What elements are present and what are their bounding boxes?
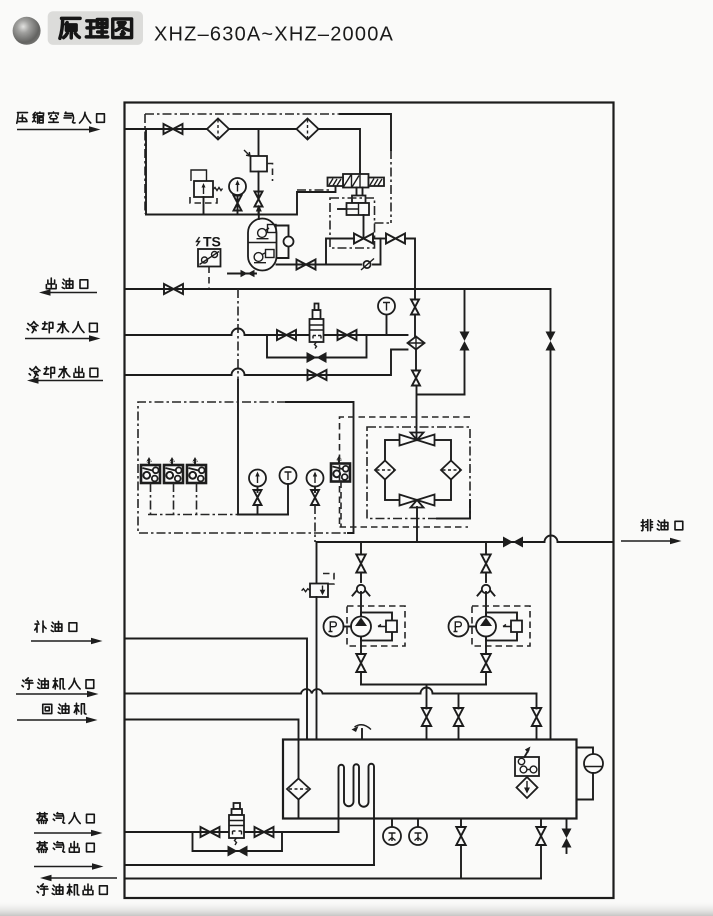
wire: solenoid to actuator — [357, 188, 363, 196]
wire: pump discharge / drain manifold — [317, 536, 614, 542]
tank drain diamond — [517, 777, 538, 798]
wire: actuator stem down — [363, 215, 365, 239]
wire: purifier outlet line — [125, 878, 542, 880]
wire: return line — [125, 720, 299, 780]
filter element left — [375, 461, 395, 480]
wire: cooling water outlet — [125, 350, 408, 376]
arrow fill port — [31, 638, 103, 645]
vessel drain valve — [228, 270, 256, 277]
arrow drain out — [621, 538, 682, 545]
valve V7 bypass closed — [307, 352, 327, 363]
wire: CV1 to V2 — [373, 238, 386, 240]
pressure switch PS2 — [164, 457, 183, 515]
heater coil — [339, 764, 375, 865]
arrow purifier in — [16, 691, 99, 698]
valve V1 air inlet — [164, 124, 183, 134]
arrow air in — [17, 126, 101, 133]
arrow oil out — [39, 289, 97, 296]
relief valve RV1 — [302, 542, 334, 740]
solenoid valve SV1 — [328, 174, 385, 188]
vessel top stub with arrow — [256, 205, 262, 220]
check valve CK1 — [361, 259, 374, 271]
wire: oil drop to cooler — [411, 289, 419, 337]
wire: return riser right — [550, 289, 552, 740]
label 冷却水入口 — [27, 322, 97, 333]
control valve CV1 — [354, 234, 373, 244]
wire: check valve line — [277, 239, 381, 265]
pressure gauge G2 — [249, 470, 266, 515]
accumulator vessel — [248, 219, 277, 271]
valve V9 bypass closed vertical — [460, 332, 470, 351]
label 蒸汽出口 — [37, 842, 94, 853]
wire: compressed air line — [125, 129, 361, 174]
valve V12 steam in — [201, 827, 220, 837]
duplex filter top 3-way valve — [400, 433, 435, 446]
tank drain riser 1 — [456, 819, 465, 879]
temperature gauge G3 — [280, 467, 297, 515]
duplex filter bottom 3-way valve — [400, 495, 435, 508]
tank drain closed valve — [562, 819, 572, 854]
wire: steam bypass — [193, 832, 283, 851]
valve V6 water in 2 — [338, 330, 357, 340]
trap 1 — [383, 819, 401, 846]
cooler cross — [408, 337, 425, 350]
label 补油口 — [35, 621, 77, 632]
actuator cylinder — [338, 203, 369, 215]
actuator dash-dot enclosure — [330, 198, 375, 248]
level gauge column — [577, 748, 604, 800]
arrow water in — [25, 335, 101, 342]
wire: air branch down to treatment — [145, 129, 147, 215]
pressure switch PS3 — [187, 457, 206, 515]
filter element right — [441, 461, 461, 480]
wire: purifier inlet line — [125, 688, 537, 694]
valve V3 vessel outlet — [297, 260, 316, 270]
wire: purifier drop 2 — [532, 694, 541, 740]
valve V2 — [386, 234, 405, 244]
outer border of diagram — [125, 103, 614, 899]
wire: main oil outlet manifold — [125, 288, 551, 290]
svg-text:TS: TS — [203, 234, 221, 250]
wire: purifier drop 1 — [454, 694, 463, 740]
pressure reducing valve PRV — [190, 170, 223, 215]
label 出油口 — [46, 278, 87, 289]
wire: treatment bottom line — [146, 187, 336, 215]
label 回油机 — [43, 703, 86, 714]
valve V13 steam in 2 — [255, 827, 274, 837]
header ball icon — [13, 17, 41, 45]
wire: filter outlet down — [416, 507, 418, 542]
T gauge on oil line — [378, 298, 395, 336]
oil tank — [283, 740, 577, 819]
air filter F1 — [207, 119, 229, 140]
duplex filter dash-dot box — [367, 427, 470, 519]
wire: oil fill line — [125, 639, 308, 740]
air regulator R1 — [244, 129, 273, 215]
tank drain riser 2 — [536, 819, 545, 879]
pump group 1 — [324, 542, 406, 685]
level switch in tank — [515, 747, 539, 777]
air system boundary dash-dot box — [145, 114, 391, 223]
svg-text:XHZ–630A~XHZ–2000A: XHZ–630A~XHZ–2000A — [154, 24, 394, 46]
arrow return — [17, 717, 98, 724]
valve V10 return closed vertical — [546, 332, 556, 351]
label 蒸汽入口 — [37, 813, 94, 824]
wire: steam inlet line — [125, 831, 339, 833]
vessel side loop with circle — [277, 226, 294, 259]
pilot box — [352, 196, 366, 204]
TS temperature switch — [197, 234, 221, 290]
pressure gauge G1 — [229, 178, 246, 215]
breather — [352, 725, 372, 740]
header chip 原理图 — [48, 11, 143, 45]
pressure switch PS4 — [331, 456, 350, 528]
valve V14 steam bypass closed — [228, 846, 248, 857]
duplex filter loop — [385, 440, 451, 500]
wire: suction drop to tank — [422, 685, 431, 740]
label 压缩空气入口 — [17, 112, 105, 123]
label 净油机出口 — [37, 884, 107, 895]
valve V5 water in — [277, 330, 296, 340]
skid dashed boundary — [340, 417, 471, 527]
valve V8 water out — [308, 370, 327, 380]
instrument dash-dot box — [138, 402, 354, 533]
instrument sensing line — [237, 289, 239, 515]
wire: steam outlet line — [125, 864, 375, 866]
arrow purifier out — [40, 875, 117, 882]
instrument manifold — [148, 514, 288, 516]
label 冷却水出口 — [29, 367, 98, 378]
wire: water bypass — [267, 335, 367, 358]
wire: cooler to filter — [412, 350, 420, 441]
temperature control valve TCV — [310, 304, 324, 349]
wire: cooler bypass riser — [464, 289, 466, 395]
pressure gauge G4 — [307, 470, 324, 543]
wire: U link to bypass riser — [417, 394, 465, 396]
pressure switch PS1 — [141, 457, 160, 515]
arrow steam out — [34, 863, 104, 870]
wire: cooling water inlet line — [125, 329, 408, 336]
wire: pump suction manifold — [361, 684, 486, 686]
pump group 2 — [449, 542, 531, 685]
label 排油口 right — [641, 520, 683, 531]
wire: valve CV1 left leg — [326, 239, 354, 265]
trap 2 — [409, 819, 427, 846]
arrow water out — [27, 377, 103, 384]
arrow steam in — [34, 830, 103, 837]
wire: V2 right to drop — [405, 239, 415, 290]
label 净油机入口 — [22, 678, 94, 689]
valve V11 drain closed — [503, 537, 523, 548]
wire: filter inlet from top — [416, 433, 418, 440]
air filter F2 — [297, 119, 319, 140]
valve V4 oil outlet — [164, 284, 183, 294]
return filter in tank — [287, 779, 310, 819]
steam control valve SCV — [229, 803, 244, 845]
